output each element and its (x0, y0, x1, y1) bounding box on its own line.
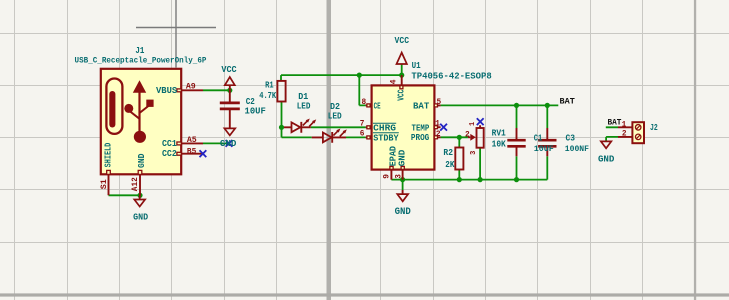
svg-text:7: 7 (360, 121, 365, 129)
svg-text:U1: U1 (412, 60, 421, 71)
svg-text:3: 3 (470, 151, 478, 155)
svg-text:R2: R2 (443, 147, 453, 158)
svg-text:BAT: BAT (413, 101, 430, 112)
svg-text:6: 6 (360, 131, 365, 139)
svg-text:VBUS: VBUS (156, 85, 178, 96)
svg-text:TP4056-42-ESOP8: TP4056-42-ESOP8 (411, 71, 492, 82)
svg-text:SHIELD: SHIELD (103, 142, 114, 167)
svg-text:VCC: VCC (221, 64, 237, 75)
svg-text:1: 1 (469, 122, 477, 126)
svg-text:A9: A9 (186, 84, 196, 92)
svg-text:GND: GND (220, 138, 237, 149)
svg-text:RV1: RV1 (492, 128, 507, 139)
svg-text:2K: 2K (445, 159, 455, 170)
svg-text:LED: LED (328, 111, 342, 122)
svg-text:9: 9 (384, 174, 392, 179)
svg-text:8: 8 (362, 99, 367, 107)
svg-text:R1: R1 (265, 80, 274, 91)
svg-text:100NF: 100NF (565, 145, 589, 154)
svg-text:VCC: VCC (395, 35, 410, 46)
svg-text:GND: GND (395, 207, 411, 218)
svg-text:BAT: BAT (608, 119, 622, 128)
svg-text:GND: GND (396, 149, 407, 166)
svg-text:B5: B5 (187, 148, 197, 156)
svg-text:5: 5 (436, 99, 441, 107)
svg-text:3: 3 (396, 174, 404, 179)
svg-text:4.7K: 4.7K (259, 90, 276, 101)
svg-text:GND: GND (598, 154, 615, 165)
svg-text:10UF: 10UF (245, 106, 266, 117)
svg-text:10K: 10K (492, 139, 507, 150)
svg-text:LED: LED (297, 101, 311, 112)
svg-text:2: 2 (436, 131, 441, 139)
svg-text:STDBY: STDBY (373, 132, 399, 143)
svg-text:GND: GND (136, 153, 147, 168)
svg-text:1: 1 (435, 120, 440, 128)
svg-text:CC2: CC2 (162, 148, 177, 159)
svg-text:USB_C_Receptacle_PowerOnly_6P: USB_C_Receptacle_PowerOnly_6P (75, 55, 207, 65)
svg-text:GND: GND (133, 212, 148, 223)
svg-text:BAT: BAT (560, 97, 575, 106)
svg-text:CE: CE (374, 101, 381, 112)
svg-text:A12: A12 (132, 177, 140, 191)
svg-text:VCC: VCC (396, 89, 407, 101)
svg-text:2: 2 (465, 132, 470, 140)
svg-text:J1: J1 (135, 45, 144, 56)
svg-text:A5: A5 (187, 137, 197, 145)
svg-text:4: 4 (391, 79, 399, 84)
svg-text:PROG: PROG (411, 132, 430, 143)
svg-text:J2: J2 (650, 122, 658, 133)
svg-text:C1: C1 (534, 133, 543, 144)
svg-text:S1: S1 (101, 179, 109, 189)
svg-text:10UF: 10UF (534, 145, 554, 154)
svg-text:1: 1 (622, 121, 627, 129)
svg-text:2: 2 (622, 131, 627, 139)
svg-text:C3: C3 (566, 132, 576, 143)
